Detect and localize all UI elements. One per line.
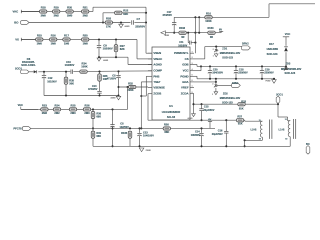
svg-text:68K: 68K: [96, 134, 101, 138]
svg-text:L1-B: L1-B: [279, 128, 285, 132]
svg-text:VREF: VREF: [181, 86, 189, 90]
svg-text:D17: D17: [269, 42, 274, 46]
svg-text:AGND: AGND: [188, 117, 194, 120]
svg-text:10: 10: [285, 138, 287, 140]
svg-text:PWMCNTL: PWMCNTL: [174, 51, 189, 55]
svg-text:R150: R150: [208, 27, 215, 30]
svg-text:R16: R16: [51, 34, 56, 38]
svg-text:R26: R26: [164, 123, 169, 127]
svg-text:2M0: 2M0: [84, 111, 90, 115]
svg-text:2CO1: 2CO1: [15, 66, 23, 70]
svg-text:220/50V: 220/50V: [264, 72, 274, 75]
svg-text:C7: C7: [137, 17, 141, 21]
svg-text:62K: 62K: [120, 47, 125, 51]
svg-text:3: 3: [192, 63, 193, 65]
svg-text:AGND: AGND: [125, 25, 131, 28]
svg-text:PGND: PGND: [146, 150, 152, 152]
svg-text:R33: R33: [241, 99, 246, 103]
svg-text:U1: U1: [169, 104, 173, 108]
svg-text:1: 1: [192, 52, 193, 54]
svg-text:PGND: PGND: [266, 80, 272, 82]
svg-text:2M2: 2M2: [83, 13, 89, 17]
svg-text:2M2: 2M2: [42, 111, 48, 115]
svg-text:SOD-123: SOD-123: [285, 71, 296, 75]
svg-text:20pF/50V: 20pF/50V: [212, 133, 223, 136]
svg-text:62K: 62K: [123, 12, 128, 16]
svg-text:R25: R25: [71, 104, 76, 108]
svg-text:100K: 100K: [205, 19, 211, 23]
svg-text:6V: 6V: [208, 119, 211, 122]
svg-text:ZD1: ZD1: [222, 47, 227, 51]
svg-text:GDB: GDB: [182, 63, 188, 67]
svg-text:R23: R23: [42, 104, 47, 108]
svg-text:27K: 27K: [106, 24, 111, 28]
svg-text:ZCDA: ZCDA: [181, 92, 189, 96]
svg-text:2M0: 2M0: [67, 13, 73, 17]
svg-text:VSEN: VSEN: [153, 51, 161, 55]
svg-text:220K: 220K: [127, 88, 133, 92]
svg-text:SOD-123: SOD-123: [222, 56, 233, 60]
svg-text:104/100V: 104/100V: [212, 72, 223, 75]
svg-text:GDA: GDA: [182, 80, 188, 84]
svg-text:6V: 6V: [219, 28, 222, 31]
svg-text:5: 5: [192, 75, 193, 77]
svg-text:R32: R32: [128, 81, 133, 85]
svg-text:R24: R24: [55, 104, 60, 108]
svg-text:L2-B: L2-B: [251, 128, 257, 132]
svg-text:R21: R21: [83, 6, 88, 10]
svg-text:1: 1: [212, 94, 213, 96]
svg-text:SOD-123: SOD-123: [222, 100, 233, 104]
svg-text:51K: 51K: [238, 122, 243, 126]
svg-text:51K: 51K: [239, 107, 244, 111]
svg-text:2M2: 2M2: [54, 111, 60, 115]
svg-text:1M0: 1M0: [37, 41, 43, 45]
svg-text:CS: CS: [185, 57, 189, 61]
svg-text:ZD3: ZD3: [286, 62, 291, 66]
svg-text:TSET: TSET: [153, 80, 161, 84]
svg-text:AGND: AGND: [111, 96, 117, 99]
svg-text:220/50V: 220/50V: [238, 72, 248, 75]
svg-text:VINAC: VINAC: [153, 57, 162, 61]
svg-text:68K: 68K: [96, 114, 101, 118]
svg-text:8: 8: [192, 92, 193, 94]
svg-text:PHB: PHB: [153, 74, 159, 78]
svg-text:MMSZ5248A-18V: MMSZ5248A-18V: [220, 51, 241, 55]
svg-text:102/50V: 102/50V: [103, 46, 113, 50]
svg-text:2: 2: [192, 57, 193, 59]
svg-text:2CO1: 2CO1: [276, 93, 283, 97]
svg-text:VCC: VCC: [285, 32, 291, 36]
svg-text:R108: R108: [179, 27, 186, 30]
svg-text:AGND: AGND: [153, 63, 161, 67]
svg-text:0R: 0R: [210, 36, 213, 39]
svg-text:VCC: VCC: [183, 69, 189, 73]
svg-text:VSENSE: VSENSE: [153, 86, 165, 90]
svg-text:2M0: 2M0: [70, 111, 76, 115]
svg-text:SO-16: SO-16: [167, 115, 176, 119]
svg-text:2M2: 2M2: [54, 13, 60, 17]
svg-text:68K: 68K: [164, 130, 169, 134]
svg-text:SOD-123FL: SOD-123FL: [21, 63, 36, 67]
svg-text:R37: R37: [237, 115, 242, 119]
svg-text:1M0: 1M0: [64, 41, 70, 45]
svg-text:6: 6: [192, 80, 193, 82]
svg-text:VX: VX: [15, 38, 19, 42]
svg-text:1M0: 1M0: [51, 41, 57, 45]
svg-text:ZD2: ZD2: [223, 92, 228, 96]
svg-text:1M0: 1M0: [83, 41, 89, 45]
svg-text:UCC28063DR: UCC28063DR: [162, 110, 181, 114]
svg-text:0R: 0R: [181, 36, 184, 39]
svg-text:R19: R19: [54, 6, 59, 10]
svg-text:474/25V: 474/25V: [88, 87, 98, 91]
svg-text:SOD-123: SOD-123: [267, 52, 278, 56]
svg-text:105/50V: 105/50V: [191, 134, 201, 137]
svg-text:R165: R165: [121, 131, 128, 135]
svg-text:2M0: 2M0: [41, 13, 47, 17]
svg-text:471/50V: 471/50V: [107, 77, 117, 81]
svg-text:PFC78: PFC78: [13, 127, 22, 131]
svg-text:R10: R10: [206, 11, 211, 15]
svg-text:COMP: COMP: [153, 69, 162, 73]
svg-text:MMSZ5248A-18V: MMSZ5248A-18V: [220, 96, 241, 100]
svg-text:1N4148W: 1N4148W: [266, 47, 278, 51]
svg-text:2: 2: [213, 49, 214, 51]
svg-text:R25: R25: [83, 34, 88, 38]
svg-text:473/50V: 473/50V: [162, 13, 172, 17]
svg-text:DRV1: DRV1: [232, 82, 239, 85]
svg-text:R17: R17: [64, 34, 69, 38]
svg-text:R26: R26: [85, 104, 90, 108]
svg-text:R20: R20: [67, 6, 72, 10]
svg-text:7: 7: [192, 86, 193, 88]
svg-text:100K: 100K: [81, 65, 87, 69]
svg-text:R18: R18: [41, 6, 46, 10]
svg-text:AGND: AGND: [103, 59, 109, 62]
svg-text:104/100V: 104/100V: [143, 133, 154, 137]
svg-text:11: 11: [259, 120, 261, 122]
svg-text:ZCDB: ZCDB: [153, 92, 161, 96]
svg-text:R28: R28: [106, 17, 111, 21]
svg-text:C17: C17: [167, 10, 172, 14]
svg-text:225/50V: 225/50V: [135, 25, 145, 29]
svg-text:PGND: PGND: [180, 74, 188, 78]
svg-text:1: 1: [213, 55, 214, 57]
svg-text:20pF/50V: 20pF/50V: [203, 109, 214, 112]
svg-text:C15: C15: [204, 106, 209, 109]
svg-text:VAC: VAC: [13, 10, 19, 14]
svg-text:101/50V: 101/50V: [47, 79, 57, 83]
svg-text:104/50V: 104/50V: [65, 63, 75, 67]
svg-text:11: 11: [285, 119, 287, 121]
svg-text:R15: R15: [37, 34, 42, 38]
svg-text:DRV2: DRV2: [242, 43, 249, 46]
svg-text:VAC: VAC: [18, 103, 23, 107]
svg-text:2: 2: [212, 84, 213, 86]
svg-text:30K: 30K: [69, 81, 74, 85]
svg-text:R22: R22: [123, 8, 128, 12]
